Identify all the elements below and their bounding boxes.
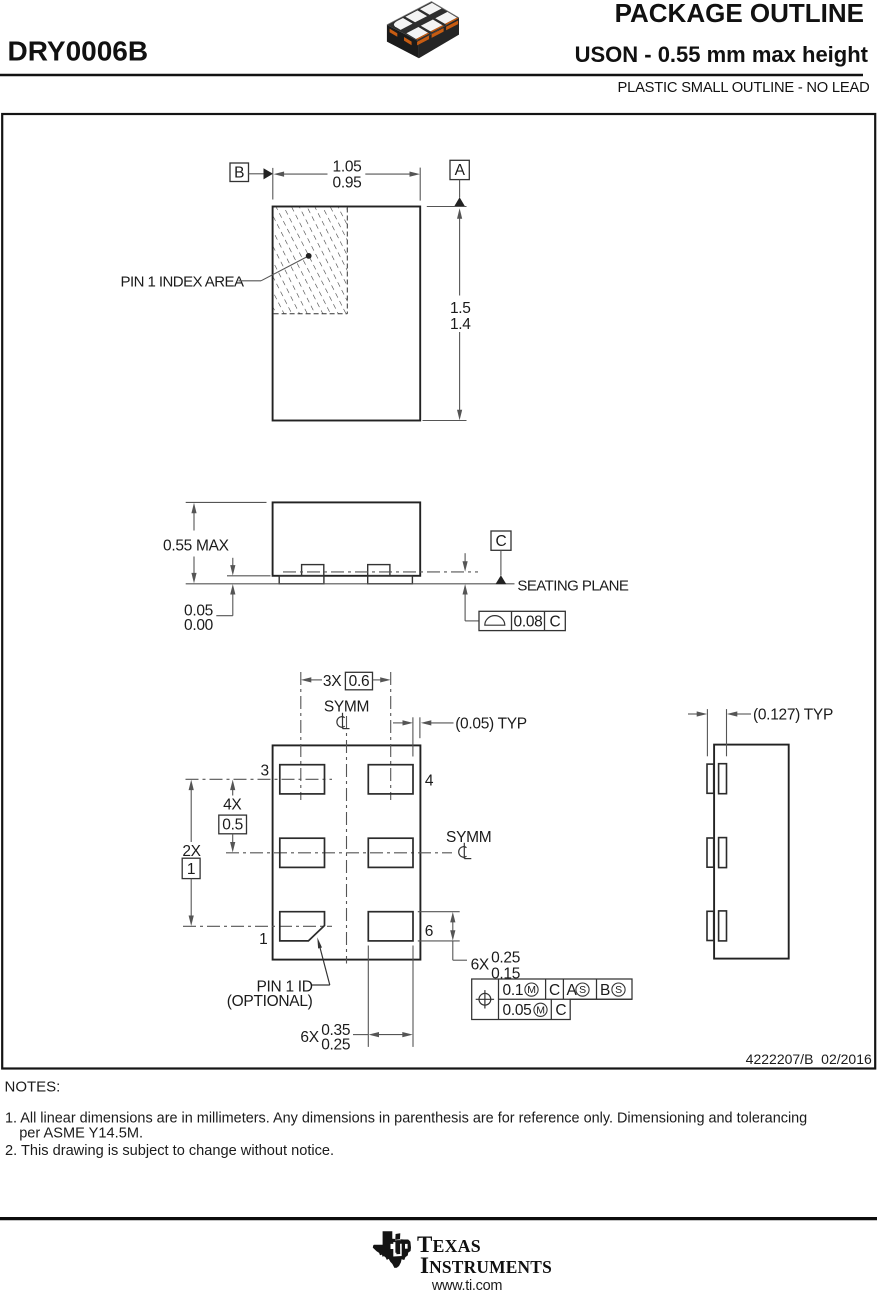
- svg-text:0.5: 0.5: [222, 817, 243, 834]
- svg-text:1.05: 1.05: [333, 159, 362, 176]
- svg-text:www.ti.com: www.ti.com: [431, 1278, 503, 1291]
- svg-text:DRY0006B: DRY0006B: [8, 35, 149, 66]
- svg-text:PIN 1 INDEX AREA: PIN 1 INDEX AREA: [121, 273, 244, 290]
- svg-text:SYMM: SYMM: [446, 829, 491, 846]
- svg-text:A: A: [455, 162, 466, 179]
- svg-text:4X: 4X: [223, 797, 242, 814]
- svg-text:0.55 MAX: 0.55 MAX: [163, 537, 230, 554]
- svg-text:PLASTIC SMALL OUTLINE - NO LEA: PLASTIC SMALL OUTLINE - NO LEAD: [618, 80, 870, 96]
- svg-text:6X: 6X: [300, 1029, 319, 1046]
- svg-text:(0.05) TYP: (0.05) TYP: [455, 715, 527, 732]
- svg-text:4: 4: [425, 773, 434, 790]
- svg-text:1: 1: [187, 861, 195, 878]
- svg-text:SEATING PLANE: SEATING PLANE: [517, 578, 628, 595]
- svg-text:0.6: 0.6: [349, 673, 370, 690]
- svg-text:0.15: 0.15: [491, 965, 520, 982]
- svg-text:0.00: 0.00: [184, 617, 214, 634]
- svg-text:INSTRUMENTS: INSTRUMENTS: [420, 1253, 552, 1278]
- svg-text:C: C: [496, 533, 507, 550]
- svg-text:S: S: [615, 984, 622, 996]
- svg-text:6X: 6X: [471, 957, 490, 974]
- svg-text:2. This drawing is subject to: 2. This drawing is subject to change wit…: [5, 1143, 334, 1159]
- svg-text:1.5: 1.5: [450, 300, 471, 317]
- svg-text:M: M: [536, 1004, 544, 1016]
- svg-text:PACKAGE OUTLINE: PACKAGE OUTLINE: [615, 0, 864, 28]
- svg-text:6: 6: [425, 923, 433, 940]
- svg-text:S: S: [579, 984, 586, 996]
- svg-text:per ASME Y14.5M.: per ASME Y14.5M.: [19, 1126, 143, 1142]
- svg-text:0.25: 0.25: [491, 949, 520, 966]
- svg-text:SYMM: SYMM: [324, 698, 369, 715]
- svg-text:0.08: 0.08: [514, 613, 543, 630]
- svg-text:USON - 0.55 mm max height: USON - 0.55 mm max height: [575, 42, 869, 67]
- svg-text:(OPTIONAL): (OPTIONAL): [227, 993, 313, 1010]
- svg-text:1: 1: [259, 931, 267, 948]
- svg-text:0.05: 0.05: [503, 1002, 532, 1019]
- svg-text:NOTES:: NOTES:: [5, 1079, 61, 1096]
- svg-text:B: B: [234, 165, 244, 182]
- svg-text:3: 3: [260, 762, 268, 779]
- svg-text:B: B: [600, 982, 610, 999]
- svg-text:0.95: 0.95: [333, 175, 362, 192]
- svg-text:3X: 3X: [323, 673, 342, 690]
- svg-text:4222207/B 02/2016: 4222207/B 02/2016: [746, 1051, 872, 1067]
- svg-text:C: C: [549, 982, 560, 999]
- svg-text:0.25: 0.25: [321, 1036, 350, 1053]
- svg-text:1.4: 1.4: [450, 316, 471, 333]
- svg-text:M: M: [527, 984, 535, 996]
- svg-text:(0.127) TYP: (0.127) TYP: [753, 707, 833, 724]
- svg-text:2X: 2X: [182, 843, 201, 860]
- svg-text:0.1: 0.1: [503, 982, 524, 999]
- svg-text:1. All linear dimensions are i: 1. All linear dimensions are in millimet…: [5, 1110, 807, 1126]
- svg-text:C: C: [550, 613, 561, 630]
- svg-text:C: C: [555, 1002, 566, 1019]
